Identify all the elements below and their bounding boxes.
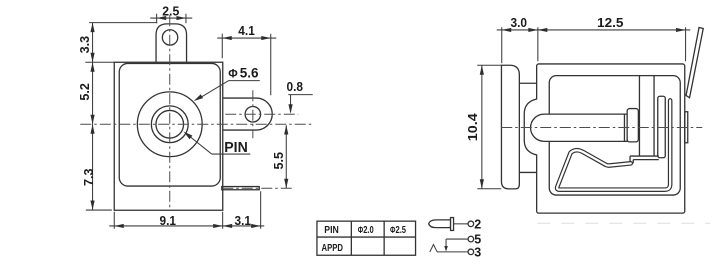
svg-text:12.5: 12.5	[597, 15, 624, 30]
svg-text:PIN: PIN	[224, 139, 248, 156]
svg-text:4.1: 4.1	[238, 23, 255, 38]
horizontal centerline	[80, 123, 312, 125]
dimension 5.5 (center to tab)	[271, 125, 288, 188]
side lug hole horizontal centerline	[225, 113, 298, 115]
svg-text:7.3: 7.3	[81, 169, 96, 187]
dimension 0.8 (hole offset)	[287, 79, 313, 114]
spring contact with sleeve plate	[557, 100, 670, 189]
dimension 5.2 (top to center)	[77, 62, 114, 124]
dimension 3.0 (flange to body)	[497, 15, 544, 64]
barrel outer circle (5.6)	[137, 92, 202, 157]
svg-text:3: 3	[474, 245, 481, 259]
divider wall 1	[638, 76, 640, 156]
pin 3 terminal circle	[468, 249, 474, 255]
side lug hole vertical centerline	[252, 90, 254, 138]
dimension 7.3 (center to bottom)	[81, 124, 112, 210]
contact plate 1	[658, 96, 666, 158]
center pin barrel	[531, 114, 628, 141]
svg-text:9.1: 9.1	[160, 213, 177, 228]
pin insulator collar	[627, 109, 638, 142]
jack body outer frame	[114, 62, 223, 210]
pin 5 terminal circle	[468, 236, 474, 242]
vertical centerline	[169, 15, 171, 210]
barrel middle circle	[151, 106, 188, 143]
svg-text:PIN: PIN	[324, 224, 339, 236]
dimension 9.1 (body width)	[109, 212, 264, 229]
dimension 12.5 (body length)	[538, 15, 690, 62]
side lug hole	[245, 107, 261, 123]
svg-text:0.8: 0.8	[287, 79, 304, 94]
svg-text:Φ5.6: Φ5.6	[228, 65, 259, 80]
dimension 3.1 (tab length)	[223, 191, 261, 229]
entry bushing bulge	[524, 99, 538, 155]
plug barrel symbol	[429, 220, 451, 228]
bottom tab centerline	[222, 187, 292, 189]
svg-text:3.3: 3.3	[77, 36, 92, 54]
switch lever wire	[686, 27, 703, 97]
svg-text:3.0: 3.0	[511, 15, 528, 30]
jack body inner rounded housing	[119, 63, 220, 186]
dimension 3.3 (lug height)	[77, 23, 157, 63]
svg-text:Φ2.5: Φ2.5	[390, 224, 406, 236]
divider wall 2	[653, 76, 655, 156]
label 5.6 diameter with leader	[194, 65, 260, 101]
plug cross bar	[451, 218, 454, 231]
side view centerline	[501, 127, 702, 129]
svg-text:Φ2.0: Φ2.0	[358, 224, 374, 236]
faint pcb line	[537, 222, 710, 224]
dimension 2.5 (top lug width)	[150, 3, 192, 23]
terminal strip	[630, 155, 659, 157]
center pin circle	[156, 110, 184, 138]
neck between flange and body	[519, 83, 536, 172]
inner cage	[549, 76, 680, 195]
body outer shell	[537, 64, 685, 213]
switch vertical link	[445, 239, 447, 246]
svg-text:APPD: APPD	[322, 242, 344, 254]
svg-text:10.4: 10.4	[465, 112, 480, 141]
svg-text:2.5: 2.5	[162, 3, 179, 18]
side solder lug	[223, 98, 273, 130]
top mounting lug	[156, 24, 187, 62]
dimension 10.4 (flange height)	[465, 65, 501, 189]
pin end cap	[623, 114, 625, 141]
panel flange plate	[501, 65, 519, 189]
dimension 4.1 (side lug length)	[217, 23, 276, 95]
svg-text:2: 2	[474, 217, 481, 231]
pin 2 terminal circle	[468, 221, 474, 227]
svg-text:5.5: 5.5	[271, 152, 286, 170]
bottom terminal tab	[222, 187, 260, 190]
svg-text:3.1: 3.1	[235, 213, 252, 228]
pin 3 lead with spring contact	[430, 245, 468, 253]
right wall tab	[685, 112, 688, 143]
svg-text:5.2: 5.2	[77, 83, 92, 101]
spec table frame	[317, 221, 416, 255]
pin 5 lead	[446, 238, 468, 240]
top lug hole	[162, 30, 177, 45]
label PIN with leader	[184, 132, 251, 156]
pin 2 lead	[454, 223, 469, 225]
